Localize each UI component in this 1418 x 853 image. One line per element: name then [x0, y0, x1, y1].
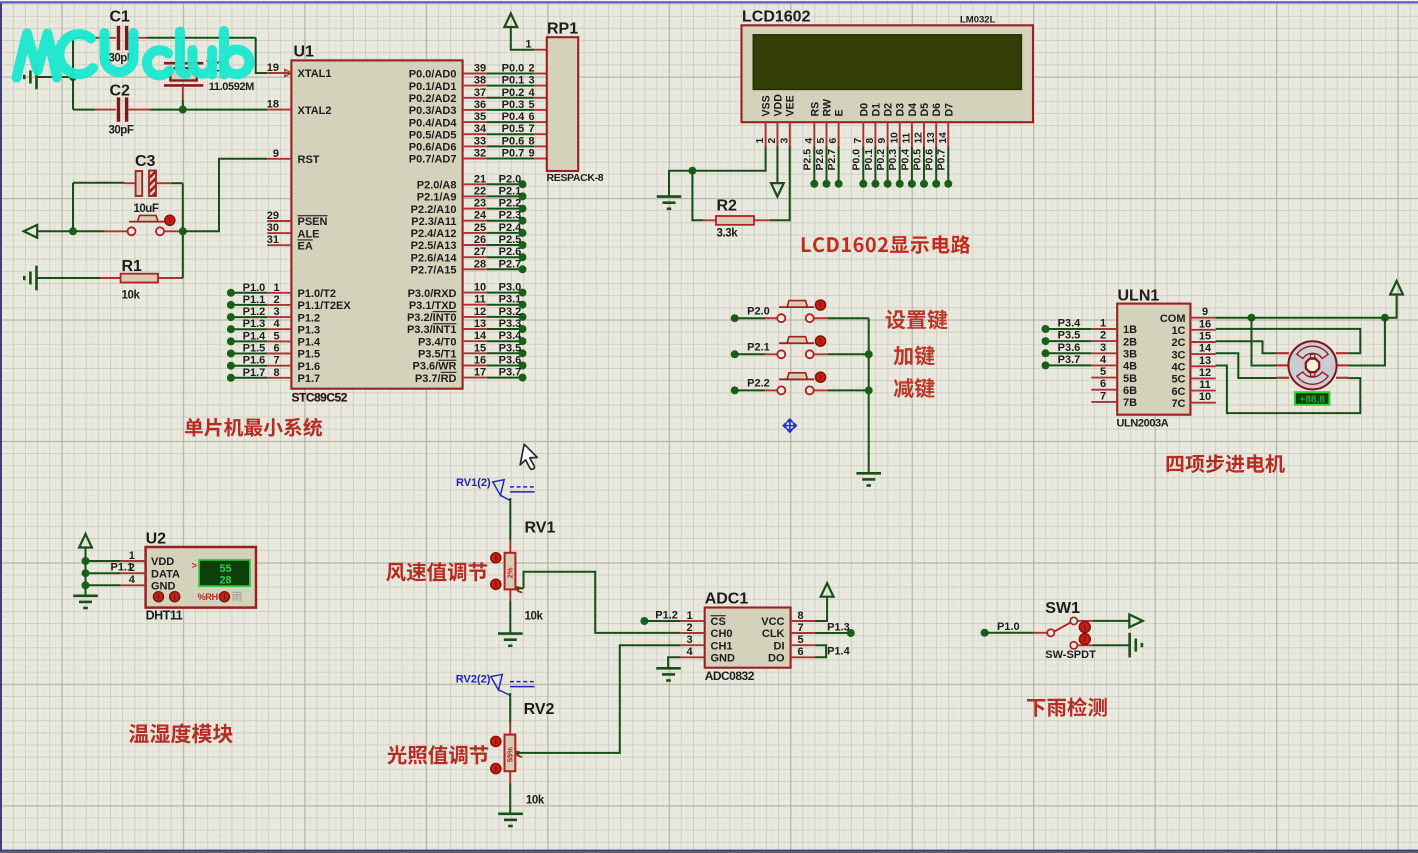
pin stub U1 XTAL1 [267, 72, 291, 74]
junction dot P1.0 end [981, 629, 989, 637]
wire LCD D1 net P0.1 [874, 147, 876, 184]
svg-text:P2.6/A14: P2.6/A14 [411, 252, 458, 264]
svg-text:P1.0: P1.0 [997, 621, 1020, 633]
svg-text:P1.5: P1.5 [298, 349, 321, 361]
wire RV1 wiper to ADC CH0 [524, 572, 681, 633]
power terminal VCC arrow (SW1) [1129, 615, 1143, 628]
svg-text:P1.3: P1.3 [827, 621, 850, 633]
svg-text:P1.6: P1.6 [243, 355, 266, 367]
pin stub U1 P3.0 [463, 292, 487, 294]
svg-text:P2.1: P2.1 [499, 185, 522, 197]
wire C1 to XTAL1 corner [147, 37, 256, 39]
pin stub LCD pin 8 [874, 122, 876, 146]
switch SW1 SW-SPDT [1034, 617, 1093, 649]
svg-text:XTAL1: XTAL1 [298, 68, 332, 80]
wire GND to R1 [37, 277, 101, 279]
pin stub U1 P1.4 [267, 340, 291, 342]
wire to C2 left [73, 109, 95, 111]
svg-text:11: 11 [902, 132, 913, 143]
pin stub ULN1 pin 11 (6C) [1190, 390, 1215, 392]
pin stub ADC1 GND [680, 656, 704, 658]
svg-text:16: 16 [474, 355, 486, 367]
svg-text:P0.2: P0.2 [502, 87, 525, 99]
interactive toggle marker RV2 down marker [491, 764, 501, 774]
pin stub U1 ALE [267, 232, 291, 234]
pin stub LCD pin 7 [862, 122, 864, 146]
pin stub U1 P0.3 [463, 109, 487, 111]
pin stub U1 P3.5 [463, 352, 487, 354]
svg-text:P3.6/WR: P3.6/WR [412, 361, 456, 373]
pin stub U1 P0.6 [463, 145, 487, 147]
svg-text:P0.5/AD5: P0.5/AD5 [409, 129, 457, 141]
svg-text:4C: 4C [1171, 362, 1185, 374]
power terminal VCC arrow (RP1) [504, 14, 517, 28]
wire net P1.7 [231, 377, 267, 379]
DHT11 display [199, 560, 250, 586]
svg-text:4: 4 [686, 646, 693, 658]
U1 XTAL1 pin arrow [285, 69, 292, 76]
wire net P3.4 (ULN) [1046, 328, 1092, 330]
ground GND (keys) [856, 473, 881, 485]
wire LCD RW net P2.6 [826, 147, 828, 184]
wire net P2.4 [487, 232, 523, 234]
wire ULN 3C to motor left-bottom [1216, 353, 1276, 378]
interactive toggle marker key 1 marker [816, 300, 826, 310]
svg-text:P3.6: P3.6 [499, 355, 522, 367]
power terminal VCC arrow down (LCD VDD) [771, 183, 784, 197]
pin stub LCD pin 13 [935, 122, 937, 146]
svg-text:P2.1/A9: P2.1/A9 [417, 192, 457, 204]
svg-text:2: 2 [273, 294, 279, 306]
pin stub LCD pin 11 [911, 122, 913, 146]
svg-text:P1.0/T2: P1.0/T2 [298, 288, 337, 300]
wire crystal bottom lead net [182, 100, 184, 110]
svg-text:DHT11: DHT11 [146, 609, 183, 623]
blue origin marker [783, 419, 796, 432]
junction dot P2.2 end [519, 205, 527, 213]
svg-text:1: 1 [273, 282, 279, 294]
junction dot P2.1 end [519, 192, 527, 200]
svg-text:7: 7 [1100, 390, 1106, 402]
svg-text:P0.1/AD1: P0.1/AD1 [409, 81, 457, 93]
svg-text:ADC0832: ADC0832 [705, 669, 755, 683]
svg-text:P0.7: P0.7 [936, 149, 948, 171]
svg-text:RW: RW [822, 99, 834, 116]
wire RV1 wiper tiny [517, 587, 524, 589]
svg-text:+88.8: +88.8 [1300, 394, 1326, 405]
probe symbol RV1 [493, 480, 535, 501]
svg-text:D3: D3 [895, 103, 907, 117]
pin stub LCD pin 1 [765, 122, 767, 146]
wire net P1.6 [231, 365, 267, 367]
wire probe to RV1 [509, 498, 511, 541]
wire net P3.7 [487, 377, 523, 379]
junction dot P3.7 end (ULN) [1042, 361, 1050, 369]
svg-text:12: 12 [914, 132, 925, 144]
wire U2 GND net [86, 584, 121, 586]
push button (reset) [104, 215, 179, 235]
junction dot P3.6 end (ULN) [1042, 349, 1050, 357]
svg-text:1: 1 [525, 39, 531, 51]
pin stub U2 DATA [121, 572, 146, 574]
pin stub U1 P2.6 [463, 256, 487, 258]
junction dot P3.5 end (ULN) [1042, 337, 1050, 345]
svg-text:29: 29 [267, 210, 279, 222]
wire net P0.0 [487, 73, 534, 75]
wire C3 left vertical [72, 183, 74, 232]
pin stub RP1 pin 3 [534, 85, 547, 87]
junction dot P3.0 end [519, 289, 527, 297]
wire LCD D0 net P0.0 [862, 147, 864, 184]
svg-text:P0.2: P0.2 [875, 149, 887, 171]
svg-text:P0.5: P0.5 [911, 149, 923, 171]
junction dot reset button net left [69, 227, 77, 235]
svg-text:26: 26 [474, 234, 486, 246]
svg-text:11: 11 [474, 294, 486, 306]
svg-text:P0.6: P0.6 [924, 149, 936, 171]
wire to C1 left [73, 37, 97, 39]
wire COM to motor left-middle [1252, 318, 1277, 366]
pin stub U1 P0.5 [463, 133, 487, 135]
pin stub ADC1 CH0 [680, 632, 704, 634]
svg-text:P0.6/AD6: P0.6/AD6 [409, 142, 457, 154]
svg-text:P2.7: P2.7 [499, 258, 522, 270]
wire C3 right to RST vertical [171, 182, 183, 184]
svg-text:2: 2 [528, 63, 534, 75]
svg-text:P3.7/RD: P3.7/RD [415, 373, 457, 385]
pin stub U1 P0.7 [463, 158, 487, 160]
junction dot P1.7 end [227, 374, 235, 382]
svg-text:P3.7: P3.7 [499, 367, 522, 379]
wire net P1.0 [985, 632, 1034, 634]
interactive toggle marker RV1 down marker [491, 579, 501, 589]
svg-text:P1.4: P1.4 [243, 330, 267, 342]
svg-text:LCD1602: LCD1602 [742, 8, 811, 25]
pin stub U1 RST [267, 158, 291, 160]
junction dot P1.0 end [227, 289, 235, 297]
pin stub LCD pin 5 [826, 122, 828, 146]
svg-text:55%: 55% [506, 747, 515, 762]
wire ADC VCC net [815, 597, 827, 621]
wire probe to RV2 [509, 693, 511, 723]
svg-text:SW1: SW1 [1045, 600, 1080, 617]
wire COM power rail [1216, 295, 1397, 318]
pin stub U1 P3.3 [463, 328, 487, 330]
svg-text:36: 36 [474, 99, 486, 111]
wire net P2.3 [487, 220, 523, 222]
pin stub ADC1 DI [791, 644, 815, 646]
svg-text:39: 39 [474, 63, 486, 75]
pin stub RP1 pin 7 [534, 133, 547, 135]
svg-text:STC89C52: STC89C52 [292, 391, 348, 405]
pin stub LCD pin 2 [776, 122, 778, 146]
svg-text:9: 9 [273, 148, 279, 160]
wire LCD VEE net [770, 147, 790, 221]
wire net P3.6 [487, 365, 523, 367]
svg-text:3: 3 [528, 75, 534, 87]
interactive toggle marker RV2 up marker [491, 736, 501, 746]
stepper motor angle display [1295, 392, 1330, 405]
svg-text:D4: D4 [907, 103, 919, 117]
wire net P3.7 (ULN) [1046, 364, 1092, 366]
svg-text:P3.3/INT1: P3.3/INT1 [407, 324, 457, 336]
svg-text:LM032L: LM032L [960, 15, 996, 26]
keys common ground bus [868, 318, 870, 473]
junction dot P1.1 end [227, 301, 235, 309]
svg-text:P2.1: P2.1 [747, 342, 770, 354]
svg-text:R2: R2 [717, 198, 738, 215]
svg-text:P2.2: P2.2 [499, 198, 522, 210]
junction dot P1.5 end [227, 350, 235, 358]
svg-text:6: 6 [828, 138, 839, 144]
wire net P3.0 [487, 292, 523, 294]
svg-text:38: 38 [474, 75, 486, 87]
pin stub U1 P1.3 [267, 328, 291, 330]
svg-text:P3.4/T0: P3.4/T0 [418, 336, 457, 348]
svg-text:VDD: VDD [151, 556, 174, 568]
wire net P0.4 [487, 121, 534, 123]
svg-text:P3.2: P3.2 [499, 306, 522, 318]
svg-text:31: 31 [267, 234, 279, 246]
svg-text:P0.1: P0.1 [863, 149, 875, 171]
wire ULN 4C to motor right-bottom [1216, 366, 1361, 414]
svg-text:D2: D2 [883, 103, 895, 117]
svg-text:P1.7: P1.7 [243, 367, 266, 379]
interactive toggle marker SW1 up marker [1079, 622, 1090, 633]
svg-text:P2.5/A13: P2.5/A13 [411, 240, 457, 252]
pin stub U1 P3.6 [463, 365, 487, 367]
svg-text:2B: 2B [1123, 336, 1137, 348]
svg-text:13: 13 [926, 132, 937, 144]
svg-text:P1.0: P1.0 [243, 282, 266, 294]
svg-text:P2.5: P2.5 [499, 234, 522, 246]
wire net P0.5 [487, 133, 534, 135]
interactive toggle marker key 2 marker [816, 336, 826, 346]
pin stub U2 VDD [121, 560, 146, 562]
svg-text:P1.3: P1.3 [298, 324, 321, 336]
text section title 四项步进电机 [1167, 454, 1285, 473]
svg-text:P1.5: P1.5 [243, 343, 266, 355]
wire LCD D6 net P0.6 [935, 147, 937, 184]
wire ULN 2C to motor left-top [1216, 341, 1276, 353]
svg-text:10k: 10k [525, 611, 544, 623]
svg-text:P3.6: P3.6 [1058, 342, 1081, 354]
svg-text:5C: 5C [1171, 374, 1185, 386]
svg-text:VDD: VDD [772, 94, 784, 117]
svg-text:14: 14 [938, 132, 949, 144]
svg-text:33: 33 [474, 135, 486, 147]
svg-text:3: 3 [779, 138, 790, 144]
ground GND (ADC) [656, 668, 681, 680]
ground GND (R1) [24, 266, 36, 291]
junction dot P2.7 end [835, 180, 843, 188]
svg-text:3B: 3B [1123, 349, 1137, 361]
text section title 温湿度模块 [129, 724, 233, 744]
svg-text:34: 34 [474, 123, 487, 135]
svg-text:P1.2: P1.2 [655, 609, 678, 621]
svg-text:C1: C1 [110, 9, 131, 26]
svg-text:4: 4 [804, 138, 815, 144]
svg-text:25: 25 [474, 222, 486, 234]
svg-text:18: 18 [267, 99, 279, 111]
text DHT11 rain label 雨 [232, 592, 242, 602]
junction dot U2 GND junction [82, 581, 90, 589]
svg-text:P3.5: P3.5 [499, 342, 522, 354]
pin stub ADC1 DO [791, 656, 815, 658]
pin stub U1 P3.1 [463, 304, 487, 306]
junction dot P2.6 end [823, 180, 831, 188]
pin stub LCD pin 4 [813, 122, 815, 146]
pin stub U1 P0.2 [463, 97, 487, 99]
text key label 设置键 [886, 310, 948, 330]
junction dot P3.4 end (ULN) [1042, 325, 1050, 333]
svg-text:8: 8 [797, 610, 803, 622]
push button key 3 [765, 373, 828, 395]
svg-text:15: 15 [474, 342, 486, 354]
wire P2.2 to key [735, 389, 765, 391]
svg-text:7: 7 [273, 355, 279, 367]
svg-text:%RH: %RH [198, 592, 219, 602]
wire LCD E net P2.7 [838, 147, 840, 184]
svg-text:2: 2 [767, 138, 778, 144]
ground GND (crystal section) [24, 65, 36, 90]
wire LCD VSS to ground [669, 147, 766, 197]
svg-text:8: 8 [528, 135, 534, 147]
svg-text:ADC1: ADC1 [705, 591, 749, 608]
junction dot P2.5 end [810, 180, 818, 188]
svg-text:23: 23 [474, 198, 486, 210]
junction dot P3.7 end [519, 374, 527, 382]
svg-text:28: 28 [219, 575, 231, 587]
wire net P1.2 to ADC CS [644, 620, 680, 622]
svg-text:PSEN: PSEN [298, 216, 328, 228]
svg-text:P1.3: P1.3 [243, 318, 266, 330]
svg-text:10k: 10k [526, 795, 545, 807]
junction dot P2.5 end [519, 241, 527, 249]
svg-text:P3.4: P3.4 [499, 330, 523, 342]
svg-text:P2.6: P2.6 [499, 246, 522, 258]
svg-text:CH1: CH1 [711, 640, 733, 652]
wire SW1 throw2 to ground [1093, 644, 1130, 646]
pin stub U1 P3.7 [463, 377, 487, 379]
svg-text:EA: EA [298, 240, 313, 252]
wire RST to U1 [183, 159, 267, 232]
power terminal VCC arrow (ADC) [821, 583, 834, 597]
capacitor C3 10uF electrolytic [124, 171, 171, 197]
svg-text:4: 4 [129, 574, 136, 586]
svg-text:P0.1: P0.1 [502, 75, 525, 87]
wire key 1 to ground bus [828, 317, 869, 319]
ground GND (SW1) [1130, 633, 1142, 658]
svg-text:7C: 7C [1171, 398, 1185, 410]
svg-text:13: 13 [1199, 355, 1211, 367]
wire net P0.2 [487, 97, 534, 99]
sensor U2 DHT11 body [146, 547, 256, 608]
svg-text:2: 2 [686, 622, 692, 634]
svg-text:8: 8 [273, 367, 279, 379]
wire LCD RS net P2.5 [813, 147, 815, 184]
svg-text:1: 1 [129, 550, 135, 562]
svg-text:D5: D5 [919, 103, 931, 117]
svg-text:XTAL2: XTAL2 [298, 105, 332, 117]
wire U2 DATA net [86, 572, 121, 574]
pin stub ULN1 pin 2 (2B) [1091, 340, 1117, 342]
svg-text:15: 15 [1199, 331, 1211, 343]
wire ULN 1C to motor right-top [1216, 329, 1361, 353]
svg-text:P2.3: P2.3 [499, 210, 522, 222]
svg-text:P2.0: P2.0 [747, 305, 770, 317]
svg-text:32: 32 [474, 148, 486, 160]
svg-text:24: 24 [474, 210, 487, 222]
pin stub ADC1 CH1 [680, 644, 704, 646]
wire C3 left horizontal [73, 182, 124, 184]
svg-text:12: 12 [474, 306, 486, 318]
svg-text:1: 1 [755, 138, 766, 144]
pin stub ADC1 VCC [791, 620, 815, 622]
svg-text:P3.0/RXD: P3.0/RXD [408, 288, 457, 300]
wire crystal top lead net [182, 38, 184, 51]
svg-text:6: 6 [1100, 378, 1106, 390]
pin stub U1 PSEN [267, 220, 291, 222]
junction dot VSS/R2 net [688, 167, 696, 175]
svg-text:5B: 5B [1123, 373, 1137, 385]
svg-text:P0.2/AD2: P0.2/AD2 [409, 93, 457, 105]
svg-text:6: 6 [797, 646, 803, 658]
wire key 2 to ground bus [828, 353, 869, 355]
svg-text:P1.4: P1.4 [827, 645, 851, 657]
wire LCD VDD net [776, 147, 778, 184]
probe symbol RV2 [491, 674, 535, 695]
svg-text:P0.0/AD0: P0.0/AD0 [409, 69, 457, 81]
svg-text:17: 17 [474, 367, 486, 379]
wire key 3 to ground bus [828, 389, 869, 391]
interactive toggle marker RV1 up marker [491, 553, 501, 563]
svg-text:E: E [834, 109, 846, 116]
wire net P3.3 [487, 328, 523, 330]
svg-text:1B: 1B [1123, 324, 1137, 336]
pin stub U1 XTAL2 [267, 109, 291, 111]
wire net P1.0 [231, 292, 267, 294]
resistor pack RP1 body [547, 37, 578, 171]
svg-text:30: 30 [267, 222, 279, 234]
text label 光照值调节 [387, 745, 488, 764]
svg-text:DATA: DATA [151, 568, 180, 580]
junction dot P2.1 key net start [731, 350, 739, 358]
DHT11 power/ground rail [85, 548, 87, 596]
svg-text:12: 12 [1199, 367, 1211, 379]
wire net P1.2 [231, 316, 267, 318]
wire net P1.3 [231, 328, 267, 330]
pin stub U1 P2.2 [463, 208, 487, 210]
wire COM to motor right-middle [1348, 318, 1385, 366]
wire net P3.2 [487, 316, 523, 318]
junction dot P3.6 end [519, 362, 527, 370]
ground GND (RV1) [498, 634, 523, 646]
junction dot P2.6 end [519, 253, 527, 261]
svg-text:10k: 10k [122, 290, 141, 302]
junction dot U2 DATA junction [82, 569, 90, 577]
wire net P0.1 [487, 85, 534, 87]
junction dot P2.2 key net start [731, 386, 739, 394]
pin stub U1 P1.0 [267, 292, 291, 294]
power terminal VCC arrow (DHT11) [79, 534, 92, 548]
svg-text:P1.7: P1.7 [298, 373, 321, 385]
svg-text:30pF: 30pF [109, 125, 134, 137]
wire net P3.5 (ULN) [1046, 340, 1092, 342]
wire down to XTAL1 pin [256, 38, 268, 73]
svg-text:16: 16 [1199, 318, 1211, 330]
junction dot P0.0 end (LCD) [859, 180, 867, 188]
